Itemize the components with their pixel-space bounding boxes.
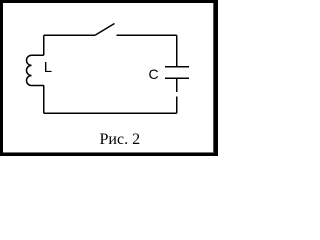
inductor L coil [26, 55, 44, 85]
caption Рис. 2 [100, 132, 141, 148]
wire top-right horizontal [117, 34, 177, 36]
wire right vertical lower segment [176, 97, 178, 114]
wire left vertical lower [43, 86, 45, 114]
wire right vertical upper [176, 35, 178, 67]
capacitor C bottom plate [165, 77, 189, 79]
switch S (open lever) [95, 24, 115, 36]
wire bottom horizontal [44, 112, 177, 114]
label L [44, 60, 52, 75]
wire right vertical mid segment [176, 78, 178, 92]
label C [149, 67, 159, 81]
wire top-left horizontal [44, 34, 95, 36]
wire left vertical upper [43, 35, 45, 55]
figure frame [0, 0, 218, 156]
capacitor C top plate [165, 66, 189, 68]
